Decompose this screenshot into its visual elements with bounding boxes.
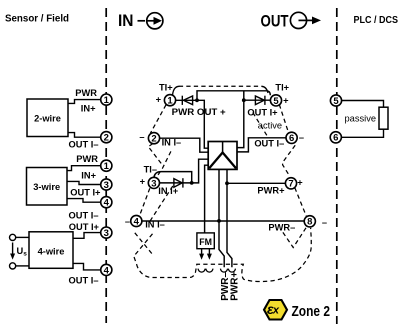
svg-text:–: – [299,133,304,143]
svg-text:OUT I+: OUT I+ [70,188,101,198]
svg-text:PWR: PWR [76,154,98,164]
svg-text:PWR OUT +: PWR OUT + [172,107,227,117]
svg-text:+: + [140,177,146,187]
svg-text:8: 8 [307,217,312,228]
svg-text:PWR–: PWR– [268,222,295,232]
svg-text:1: 1 [167,96,173,107]
svg-text:IN+: IN+ [81,103,96,113]
svg-text:TI+: TI+ [159,82,173,92]
svg-text:5: 5 [333,96,339,107]
svg-text:OUT I–: OUT I– [69,139,99,149]
svg-text:OUT I+: OUT I+ [69,222,100,232]
svg-text:OUT I–: OUT I– [69,276,99,286]
svg-text:1: 1 [104,161,110,172]
svg-text:6: 6 [289,133,294,144]
svg-text:Zone 2: Zone 2 [292,303,331,320]
svg-text:Sensor / Field: Sensor / Field [5,14,69,25]
svg-text:+: + [156,94,162,104]
svg-text:6: 6 [333,133,338,144]
svg-text:OUT: OUT [261,12,289,30]
svg-text:TI–: TI– [144,165,157,175]
svg-text:IN+: IN+ [81,170,96,180]
svg-text:4: 4 [104,198,110,209]
svg-text:–: – [125,216,130,226]
svg-text:4: 4 [134,216,140,227]
svg-text:2: 2 [151,134,156,145]
svg-text:passive: passive [345,113,377,123]
svg-text:4-wire: 4-wire [38,247,65,257]
svg-text:IN I–: IN I– [145,219,165,229]
svg-text:FM: FM [199,237,212,247]
svg-text:3: 3 [104,180,109,191]
svg-text:–: – [322,217,327,227]
svg-text:7: 7 [288,179,293,190]
svg-text:3: 3 [151,178,156,189]
svg-text:PWR: PWR [75,88,97,98]
svg-text:2-wire: 2-wire [34,114,61,124]
svg-text:+: + [283,96,289,106]
svg-text:3-wire: 3-wire [33,182,60,192]
svg-text:IN I–: IN I– [162,137,182,147]
svg-text:IN: IN [118,12,134,30]
svg-text:2: 2 [104,133,109,144]
svg-text:TI+: TI+ [275,82,289,92]
svg-text:1: 1 [104,95,110,106]
svg-text:+: + [297,177,303,187]
svg-text:5: 5 [273,96,279,107]
svg-text:4: 4 [104,265,110,276]
svg-text:PWR+: PWR+ [257,185,285,195]
svg-text:PLC / DCS: PLC / DCS [354,15,399,26]
svg-text:active: active [258,121,282,131]
svg-text:3: 3 [104,228,109,239]
svg-text:OUT I+: OUT I+ [247,108,278,118]
svg-text:OUT I–: OUT I– [69,210,99,220]
svg-text:PWR+: PWR+ [230,271,241,300]
svg-text:–: – [139,132,144,142]
svg-text:IN I+: IN I+ [158,186,178,196]
svg-text:OUT I–: OUT I– [254,138,284,148]
